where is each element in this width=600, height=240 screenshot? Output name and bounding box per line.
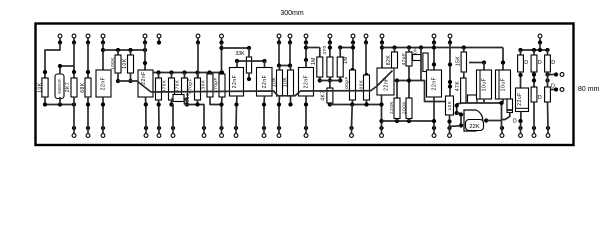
wire R8 bottom lead xyxy=(184,100,186,105)
bottom terminal pad x=173 xyxy=(171,134,175,138)
wire R5 bottom lead xyxy=(130,73,132,81)
terminal lead wire bottom x=520.5 xyxy=(520,128,522,134)
svg-text:10K: 10K xyxy=(447,100,452,110)
resistor R3 body 68K xyxy=(85,78,91,97)
svg-text:22nF: 22nF xyxy=(101,77,107,91)
wire C1 bottom lead xyxy=(59,97,61,105)
svg-text:10uF: 10uF xyxy=(500,78,506,92)
wire C3 bottom to terminal xyxy=(145,97,148,128)
terminal lead wire x=221.5 xyxy=(221,38,223,44)
junction dot node M xyxy=(499,101,503,105)
junction dot R10 top xyxy=(220,70,224,74)
resistor R22 body 10K xyxy=(406,98,412,119)
wire R15 top lead xyxy=(319,48,321,58)
wire R6 top lead xyxy=(158,73,160,79)
wire C5 top lead xyxy=(264,61,266,68)
transistor Q1 outline xyxy=(464,110,483,131)
junction dot R13 top xyxy=(277,63,281,67)
junction dot node E xyxy=(304,45,308,49)
diode D3 body xyxy=(518,55,524,72)
wire C1 to R2 column xyxy=(60,65,74,67)
diode D5 body xyxy=(545,55,551,72)
junction dot node P xyxy=(545,72,549,76)
terminal lead wire x=353 xyxy=(352,38,354,44)
wire top bus y50 xyxy=(103,49,145,51)
svg-text:22nF: 22nF xyxy=(384,77,390,91)
wire R9 bottom lead xyxy=(197,100,199,105)
wire resistor bottom lead x=319.8 xyxy=(319,77,321,81)
bottom terminal pad x=279 xyxy=(277,134,281,138)
wire R3 bottom to terminal xyxy=(87,97,89,128)
svg-text:1M: 1M xyxy=(343,56,349,64)
junction dot R3 bottom xyxy=(86,102,90,106)
junction dot Q1 lead2 xyxy=(455,111,459,115)
top terminal pad x=382 xyxy=(380,34,384,38)
wire R20 top lead xyxy=(394,48,396,53)
wire R23 column xyxy=(420,48,422,81)
bottom terminal pad x=146 xyxy=(144,134,148,138)
capacitor C1 body 680nF xyxy=(55,74,64,99)
wire Q1 collector curve to terminal xyxy=(450,125,462,128)
wire D4 to D6 xyxy=(533,72,535,87)
solder dot x=434 bottom xyxy=(432,126,436,130)
wire R21 bottom lead xyxy=(396,119,398,122)
wire C6 top lead xyxy=(305,60,307,68)
capacitor C6 body 22nF xyxy=(299,68,314,97)
capacitor C2 body 22nF xyxy=(96,70,111,97)
resistor R15 body 1M xyxy=(317,57,323,77)
bottom terminal pad x=221.5 xyxy=(220,134,224,138)
bottom terminal pad x=502 xyxy=(500,134,504,138)
resistor R2 body 2K7 xyxy=(71,78,77,97)
bottom terminal pad x=534 xyxy=(532,134,536,138)
resistor R10 body xyxy=(219,74,225,97)
terminal lead wire x=290 xyxy=(289,38,291,44)
junction dot x=319.8 y80.5 xyxy=(318,78,322,82)
junction dot R6 bottom xyxy=(157,102,161,106)
wire bus y80.5 mid xyxy=(320,80,340,82)
wire R8 top lead xyxy=(184,73,186,79)
capacitor C4 body 22nF xyxy=(230,68,244,97)
junction dot xyxy=(116,48,120,52)
wire bottom bus y121 xyxy=(382,121,435,128)
wire terminal7 column xyxy=(197,43,199,79)
terminal lead wire bottom x=74 xyxy=(73,128,75,134)
junction dot R4 bottom xyxy=(116,79,120,83)
solder dot x=74 top xyxy=(72,40,76,44)
small preset box above Q1 xyxy=(468,95,478,103)
wire D7 bottom to terminal xyxy=(547,102,550,128)
terminal lead wire x=103 xyxy=(102,38,104,44)
svg-text:68K: 68K xyxy=(80,82,86,93)
top terminal pad x=60 xyxy=(58,34,62,38)
wire R7 to terminal xyxy=(172,105,174,129)
wire C12 bottom lead xyxy=(502,99,504,103)
solder dot x=502 bottom xyxy=(500,126,504,130)
junction dot R2 top xyxy=(72,70,76,74)
terminal lead wire x=198 xyxy=(197,38,199,44)
junction dot node J xyxy=(448,62,452,66)
terminal lead wire x=540 xyxy=(539,38,541,44)
terminal lead wire x=306 xyxy=(305,38,307,44)
wire D6 bottom to terminal xyxy=(533,102,535,128)
resistor R7 body 470K xyxy=(169,78,175,100)
solder dot x=221.5 bottom xyxy=(219,126,223,130)
junction dot R19 bottom xyxy=(364,102,368,106)
terminal lead wire x=329.9 xyxy=(329,38,331,44)
top terminal pad x=279 xyxy=(277,34,281,38)
svg-text:130K: 130K xyxy=(200,79,205,92)
junction dot diode bus x=520.5 xyxy=(518,48,522,52)
bottom terminal pad x=204 xyxy=(202,134,206,138)
svg-text:100K: 100K xyxy=(110,57,115,70)
junction dot x=329.9 y80.5 xyxy=(328,78,332,82)
wire R24 bottom leads xyxy=(449,115,451,128)
solder dot x=329.9 top xyxy=(328,40,332,44)
solder dot x=351.5 bottom xyxy=(349,126,353,130)
wire R6 bottom to terminal xyxy=(158,100,161,128)
capacitor C3 body 22nF xyxy=(138,70,153,97)
wire terminal18 column xyxy=(539,43,541,51)
junction dot R12 top xyxy=(247,46,251,50)
junction dot R25 top xyxy=(462,45,466,49)
wire C4 top lead xyxy=(236,61,238,68)
wire D5 to D7 xyxy=(547,72,549,87)
wire terminal13 column xyxy=(352,43,354,71)
solder dot x=520.5 bottom xyxy=(518,126,522,130)
top terminal pad x=159 xyxy=(157,34,161,38)
wire resistor bottom lead x=340.2 xyxy=(339,77,341,81)
solder dot aux1 xyxy=(554,72,558,76)
junction dot node F xyxy=(351,45,355,49)
junction dot R6 top xyxy=(156,70,160,74)
junction dot xyxy=(58,102,62,106)
svg-text:10K: 10K xyxy=(271,77,277,88)
transistor Q1 label box xyxy=(466,120,484,131)
junction dot R9 top xyxy=(195,70,199,74)
terminal lead wire bottom x=381.5 xyxy=(381,128,383,134)
resistor R26 body 47K xyxy=(461,78,466,103)
capacitor C5 body 22nF xyxy=(257,68,273,97)
wire Q1 emitter lead xyxy=(457,113,461,126)
junction dot node L xyxy=(448,84,452,88)
terminal lead wire bottom x=548 xyxy=(547,128,549,134)
bottom terminal pad x=434 xyxy=(432,134,436,138)
wire R2 bottom to terminal xyxy=(73,97,75,128)
wire bottom bus y104.5 mid xyxy=(330,104,382,106)
wire bus to terminal7 xyxy=(185,105,205,129)
top terminal pad x=306 xyxy=(304,34,308,38)
terminal lead wire bottom x=306 xyxy=(305,128,307,134)
bottom terminal pad x=103 xyxy=(101,134,105,138)
wire R22 bottom lead xyxy=(408,119,410,122)
terminal lead wire bottom x=279 xyxy=(278,128,280,134)
wire bus y61 C4 to C5 xyxy=(237,60,265,62)
wire bus to R15 xyxy=(306,47,320,49)
wire C11 bottom lead xyxy=(483,99,485,103)
wire R17 top lead xyxy=(339,48,341,58)
solder dot x=306 bottom xyxy=(304,126,308,130)
wire terminal8 column xyxy=(221,43,223,73)
junction dot R3 top xyxy=(86,70,90,74)
wire R18 top lead xyxy=(329,81,331,89)
wire C6 bottom to terminal xyxy=(305,96,307,128)
top terminal pad x=353 xyxy=(351,34,355,38)
junction dot C6 bottom xyxy=(304,102,308,106)
junction dot node C xyxy=(219,46,223,50)
bottom terminal pad x=88 xyxy=(86,134,90,138)
junction dot R12 bottom xyxy=(247,77,251,81)
solder dot x=279 bottom xyxy=(277,126,281,130)
wire C8 bottom to terminal xyxy=(381,95,383,128)
bottom terminal pad x=236 xyxy=(234,134,238,138)
solder dot x=434 top xyxy=(432,40,436,44)
terminal lead wire bottom x=236 xyxy=(235,128,237,134)
svg-text:D: D xyxy=(538,95,542,101)
capacitor C9 body 47uF xyxy=(406,52,412,66)
wire C7 bottom lead xyxy=(351,100,353,105)
terminal lead wire x=382 xyxy=(381,38,383,44)
wire D3 to C13 xyxy=(520,72,522,92)
junction dot R9 bottom xyxy=(195,102,199,106)
wire R10a top lead xyxy=(209,73,212,75)
wire resistor bottom lead x=329.9 xyxy=(329,77,331,81)
top terminal pad x=88 xyxy=(86,34,90,38)
junction dot C3 top xyxy=(143,61,147,65)
junction dot node N xyxy=(518,73,522,77)
svg-text:D: D xyxy=(513,119,517,125)
wire terminal10 column xyxy=(289,43,291,66)
solder dot x=204 bottom xyxy=(202,126,206,130)
wire R11 right lead xyxy=(184,99,187,105)
bottom terminal pad x=74 xyxy=(72,134,76,138)
svg-text:470: 470 xyxy=(322,45,327,54)
junction dot R13 bottom xyxy=(277,102,281,106)
svg-text:1M: 1M xyxy=(311,57,317,65)
terminal lead wire x=145 xyxy=(144,38,146,44)
svg-text:22K: 22K xyxy=(469,124,479,130)
wire R26 to Q1 base column xyxy=(457,103,464,113)
junction dot node G xyxy=(380,45,384,49)
wire D4 top lead xyxy=(533,50,535,55)
wire R13 bottom to terminal xyxy=(278,96,281,128)
solder dot x=548 bottom xyxy=(546,126,550,130)
wire bus y47.5 R17 xyxy=(340,47,353,49)
junction dot node P2 xyxy=(545,78,549,82)
junction dot R23 top xyxy=(419,45,423,49)
wire R7 bottom lead xyxy=(171,100,173,105)
wire terminal12 column xyxy=(329,43,331,58)
terminal lead wire bottom x=204 xyxy=(203,128,205,134)
wire terminal11 column xyxy=(305,43,307,61)
wire bus y65.5 xyxy=(279,65,290,67)
junction dot node K xyxy=(448,80,452,84)
aux terminal pad right2 xyxy=(560,88,564,92)
top terminal pad x=450 xyxy=(448,34,452,38)
solder dot x=221.5 top xyxy=(219,40,223,44)
junction dot R21 bottom xyxy=(395,119,399,123)
wire R9 top lead xyxy=(197,73,199,79)
svg-text:82K: 82K xyxy=(386,55,392,66)
junction dot R22 bottom xyxy=(407,119,411,123)
wire bus into C3 diagonal xyxy=(118,81,151,92)
terminal lead wire bottom x=534 xyxy=(533,128,535,134)
solder dot x=88 bottom xyxy=(86,126,90,130)
wire bottom bus left xyxy=(45,104,74,106)
junction dot C6 top xyxy=(304,58,308,62)
resistor R6 body 470K xyxy=(156,78,162,100)
wire terminal4 column xyxy=(102,43,104,71)
wire Q1 to output column xyxy=(486,120,501,122)
wire R13 top lead xyxy=(279,66,281,71)
resistor R24 body 10K xyxy=(446,96,454,115)
junction dot R10a top xyxy=(207,70,211,74)
top terminal pad x=103 xyxy=(101,34,105,38)
terminal lead wire bottom x=146 xyxy=(145,128,147,134)
junction dot xyxy=(43,102,47,106)
svg-text:10K: 10K xyxy=(122,58,128,69)
wire C7 to terminal xyxy=(351,105,354,129)
wire to aux terminal1 xyxy=(548,74,556,76)
wire R25 top lead xyxy=(463,48,465,53)
terminal lead wire x=74 xyxy=(73,38,75,44)
junction dot terminal8 xyxy=(219,102,223,106)
junction dot C3 bottom xyxy=(144,102,148,106)
wire R10 top lead xyxy=(221,73,223,75)
solder dot x=146 bottom xyxy=(144,126,148,130)
junction dot C4 top xyxy=(235,59,239,63)
solder dot x=173 bottom xyxy=(171,126,175,130)
svg-text:300mm: 300mm xyxy=(280,10,304,17)
resistor R16 body 470 xyxy=(327,57,333,77)
junction dot node D xyxy=(219,70,223,74)
junction dot node O xyxy=(532,72,536,76)
solder dot x=145 top xyxy=(143,40,147,44)
resistor R14 body 10K xyxy=(288,70,294,96)
junction dot C1 top xyxy=(58,64,62,68)
solder dot aux2 xyxy=(554,87,558,91)
wire R18 bottom lead xyxy=(329,103,331,105)
top terminal pad x=145 xyxy=(143,34,147,38)
svg-text:33K: 33K xyxy=(235,51,245,57)
junction dot diode bus x=547.5 xyxy=(545,48,549,52)
top terminal pad x=221.5 xyxy=(220,34,224,38)
terminal lead wire bottom x=173 xyxy=(172,128,174,134)
junction dot R7 bottom xyxy=(169,102,173,106)
solder dot x=103 bottom xyxy=(101,126,105,130)
solder dot x=449.5 bottom xyxy=(447,126,451,130)
solder dot x=198 top xyxy=(196,40,200,44)
junction dot node I xyxy=(432,45,436,49)
wire terminal2 column xyxy=(73,43,75,79)
wire C10 bottom to bus xyxy=(433,97,435,121)
junction dot Q1 pin1 xyxy=(447,119,451,123)
terminal lead wire bottom x=221.5 xyxy=(221,128,223,134)
solder dot x=366 top xyxy=(364,40,368,44)
resistor R10a body xyxy=(207,74,213,97)
svg-text:22uF: 22uF xyxy=(517,92,523,106)
wire R14 bottom lead xyxy=(290,96,292,105)
diode D2 cathode band xyxy=(507,109,513,111)
wire terminal14 column xyxy=(365,43,367,76)
capacitor C12 body 10uF xyxy=(496,70,511,99)
svg-text:680nF: 680nF xyxy=(57,78,62,93)
junction dot C2 bottom xyxy=(101,102,105,106)
wire C4 bottom to terminal xyxy=(236,96,237,128)
terminal lead wire x=450 xyxy=(449,38,451,44)
wire to aux terminal2 xyxy=(550,89,554,91)
solder dot x=381.5 bottom xyxy=(379,126,383,130)
capacitor C8 body 22nF xyxy=(377,68,394,95)
bottom terminal pad x=351.5 xyxy=(350,134,354,138)
junction dot C7 top xyxy=(350,68,354,72)
wire terminal9 column xyxy=(278,43,280,66)
terminal lead wire x=60 xyxy=(59,38,61,44)
solder dot x=450 top xyxy=(448,40,452,44)
top terminal pad x=198 xyxy=(196,34,200,38)
junction dot diode bus x=534 xyxy=(532,48,536,52)
resistor R1 body 10K xyxy=(42,78,48,97)
svg-text:100pF: 100pF xyxy=(344,76,349,92)
junction dot R18 bottom xyxy=(328,102,332,106)
diode D2 body xyxy=(507,99,513,113)
junction dot C10 top xyxy=(432,62,436,66)
wire bus y80.5 to Q1 area xyxy=(394,81,446,102)
wire R10 to terminal8 xyxy=(221,97,224,128)
wire R22 top lead xyxy=(408,81,410,99)
capacitor C10 body 22nF xyxy=(427,70,442,97)
svg-text:2K7: 2K7 xyxy=(65,82,71,93)
terminal lead wire bottom x=449.5 xyxy=(449,128,451,134)
top terminal pad x=290 xyxy=(288,34,292,38)
resistor R19 body 10K xyxy=(364,75,370,100)
terminal lead wire x=279 xyxy=(278,38,280,44)
junction dot C12 top xyxy=(501,60,505,64)
solder dot x=74 bottom xyxy=(72,126,76,130)
svg-text:22nF: 22nF xyxy=(432,77,438,91)
terminal lead wire bottom x=502 xyxy=(501,128,503,134)
diode D7 body xyxy=(545,87,551,102)
junction dot C9 bottom xyxy=(407,78,411,82)
wire bus corner to C12 xyxy=(502,48,504,71)
diode D1 body horizontal xyxy=(413,55,422,61)
svg-text:470K: 470K xyxy=(161,79,166,92)
junction dot C10 bottom xyxy=(432,119,436,123)
wire R4 bottom lead xyxy=(117,73,119,81)
svg-text:22nF: 22nF xyxy=(232,75,238,89)
junction dot R1 top xyxy=(43,70,47,74)
solder dot x=103 top xyxy=(101,40,105,44)
svg-text:470pF: 470pF xyxy=(213,77,218,93)
wire bus y48 to R12 xyxy=(222,47,250,49)
wire R7 top lead xyxy=(171,73,173,79)
junction dot node O2 xyxy=(532,78,536,82)
top terminal pad x=540 xyxy=(538,34,542,38)
terminal lead wire x=434 xyxy=(433,38,435,44)
junction dot C4 bottom xyxy=(234,102,238,106)
wire bus y103 to terminal xyxy=(463,103,501,128)
wire R11 left lead xyxy=(172,98,174,100)
terminal lead wire bottom x=159 xyxy=(158,128,160,134)
wire terminal15 column xyxy=(381,43,383,69)
terminal lead wire x=88 xyxy=(87,38,89,44)
wire terminal17 column xyxy=(449,43,451,97)
solder dot x=264 bottom xyxy=(262,126,266,130)
junction dot R7 top xyxy=(169,70,173,74)
capacitor C13 polarity stripe xyxy=(516,107,529,109)
wire terminal16 column xyxy=(433,43,435,71)
svg-text:47uF: 47uF xyxy=(401,53,406,66)
